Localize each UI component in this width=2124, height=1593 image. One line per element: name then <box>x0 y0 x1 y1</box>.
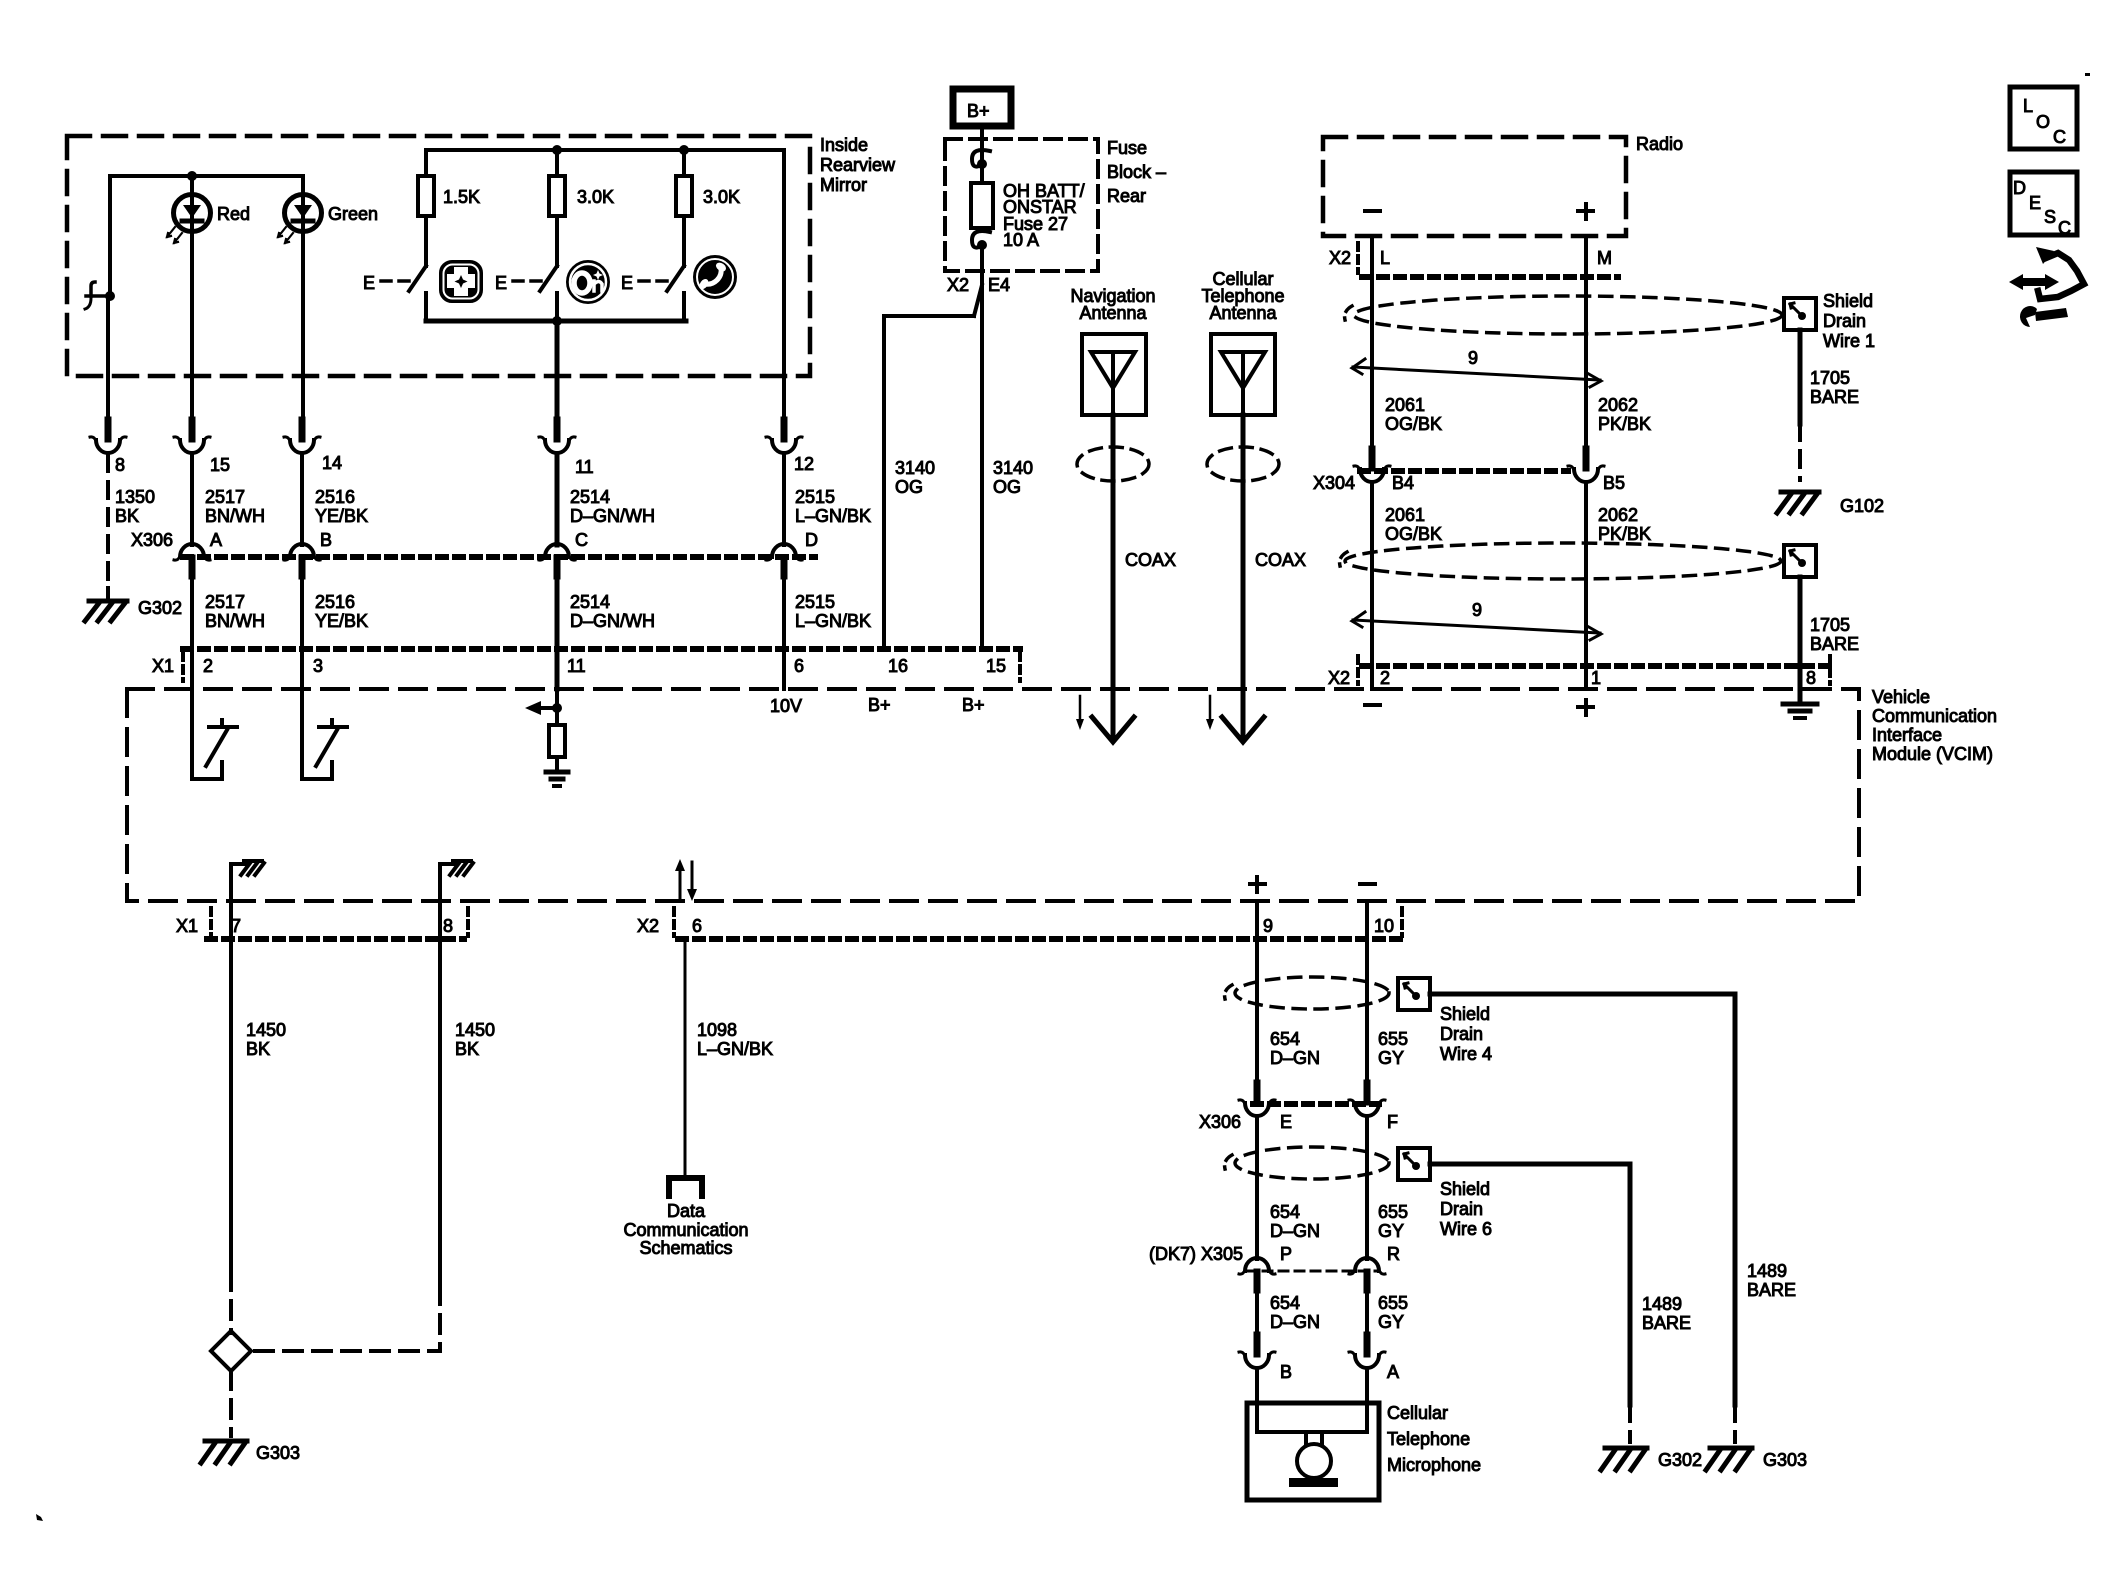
svg-text:3140: 3140 <box>993 458 1033 478</box>
shield curl mic 2 <box>1225 1155 1232 1169</box>
connector row X2 bottom (pins 6,9,10) <box>678 936 1402 942</box>
fuse clip bottom <box>972 231 990 250</box>
small arrow cell <box>1206 696 1214 730</box>
svg-text:X2: X2 <box>637 916 659 936</box>
connector row X305 (P,R) <box>1247 1270 1379 1273</box>
wire 2061 (radio L) <box>1370 236 1374 449</box>
wire pin3 into VCIM <box>300 649 304 689</box>
small arrow nav <box>1076 696 1084 730</box>
svg-text:Rearview: Rearview <box>820 155 896 175</box>
svg-text:B+: B+ <box>962 695 985 715</box>
svg-text:654: 654 <box>1270 1029 1300 1049</box>
junction dot LED rail <box>187 171 197 181</box>
svg-text:2062: 2062 <box>1598 505 1638 525</box>
svg-text:1450: 1450 <box>246 1020 286 1040</box>
svg-text:G302: G302 <box>1658 1450 1702 1470</box>
svg-text:L–GN/BK: L–GN/BK <box>795 506 871 526</box>
ground (VCIM internal) <box>546 772 568 786</box>
wire jog at X2/E4 <box>974 285 982 316</box>
wire resistor to ground <box>555 757 559 770</box>
switch blade at x=684 <box>667 266 684 291</box>
svg-text:G302: G302 <box>138 598 182 618</box>
svg-text:X306: X306 <box>1199 1112 1241 1132</box>
wire fuse out <box>980 245 984 649</box>
svg-text:D–GN/WH: D–GN/WH <box>570 506 655 526</box>
connector X306 pin F <box>1349 1083 1385 1116</box>
icon LOC box <box>2010 87 2077 149</box>
bracket X2 VCIM left <box>1356 656 1360 684</box>
bracket X2 VCIM right <box>1828 656 1832 684</box>
wire 2514 lower <box>555 576 560 649</box>
svg-text:COAX: COAX <box>1125 550 1176 570</box>
svg-text:10V: 10V <box>770 696 802 716</box>
svg-text:P: P <box>1280 1244 1292 1264</box>
stray mark top right <box>2085 73 2090 76</box>
icon emergency cross button <box>440 261 482 302</box>
shield drain terminal 1 <box>1784 298 1816 330</box>
svg-text:BK: BK <box>115 506 139 526</box>
wire shield drain 6 dashed <box>1628 1405 1632 1442</box>
splice diamond <box>211 1331 251 1371</box>
wire diamond to G303 <box>229 1371 233 1436</box>
svg-text:2514: 2514 <box>570 487 610 507</box>
icon DESC box <box>2010 172 2077 238</box>
svg-text:BN/WH: BN/WH <box>205 506 265 526</box>
svg-text:E: E <box>1280 1112 1292 1132</box>
svg-text:BARE: BARE <box>1747 1280 1796 1300</box>
svg-text:8: 8 <box>1806 668 1816 688</box>
connector pin 8 (mirror) <box>90 420 126 453</box>
svg-text:(DK7) X305: (DK7) X305 <box>1149 1244 1243 1264</box>
svg-text:2515: 2515 <box>795 592 835 612</box>
switch contact at x=684 <box>682 293 686 321</box>
svg-text:Shield: Shield <box>1440 1004 1490 1024</box>
wire pin11 drop <box>555 321 560 420</box>
resistor 3.0K (onstar) <box>549 176 565 216</box>
connector mic pin A <box>1349 1335 1385 1368</box>
svg-text:F: F <box>1387 1112 1398 1132</box>
antenna symbol cell <box>1221 352 1265 415</box>
svg-text:Antenna: Antenna <box>1209 303 1277 323</box>
bracket X2 bottom left <box>672 908 676 936</box>
svg-text:Antenna: Antenna <box>1079 303 1147 323</box>
ground (shield to VCIM pin 8) <box>1783 704 1817 718</box>
shield drain terminal 2 <box>1784 545 1816 577</box>
twisted shield ellipse 2 <box>1345 543 1781 579</box>
svg-text:6: 6 <box>692 916 702 936</box>
switch contact at x=557 <box>555 293 559 321</box>
antenna symbol nav <box>1091 352 1135 415</box>
svg-text:9: 9 <box>1263 916 1273 936</box>
svg-text:E: E <box>495 273 507 293</box>
svg-text:1489: 1489 <box>1747 1261 1787 1281</box>
icon phone button <box>694 256 736 298</box>
svg-text:L: L <box>2023 96 2033 116</box>
svg-text:Communication: Communication <box>623 1220 748 1240</box>
svg-text:B: B <box>320 530 332 550</box>
svg-text:X1: X1 <box>176 916 198 936</box>
wire 2516 upper <box>300 455 304 545</box>
svg-text:1489: 1489 <box>1642 1294 1682 1314</box>
svg-text:Fuse: Fuse <box>1107 138 1147 158</box>
svg-text:8: 8 <box>443 916 453 936</box>
svg-text:654: 654 <box>1270 1293 1300 1313</box>
svg-text:BARE: BARE <box>1642 1313 1691 1333</box>
coax arrowhead cell <box>1222 717 1264 742</box>
svg-text:Cellular: Cellular <box>1387 1403 1448 1423</box>
coax shield ellipse cell <box>1207 447 1279 481</box>
svg-text:Shield: Shield <box>1823 291 1873 311</box>
svg-text:Vehicle: Vehicle <box>1872 687 1930 707</box>
coax wire cell <box>1241 415 1246 740</box>
wire 654 D-GN (pin 9) <box>1255 901 1259 1083</box>
svg-text:Red: Red <box>217 204 250 224</box>
svg-text:Shield: Shield <box>1440 1179 1490 1199</box>
svg-text:X306: X306 <box>131 530 173 550</box>
battery feed B+ box <box>953 89 1011 126</box>
wire 2062 lower <box>1584 484 1588 689</box>
svg-text:1: 1 <box>1591 668 1601 688</box>
svg-text:D–GN: D–GN <box>1270 1048 1320 1068</box>
connector X304 pin B5 <box>1568 449 1604 482</box>
VCIM internal switch (pin at x=192) <box>192 689 237 779</box>
svg-text:O: O <box>2036 112 2050 132</box>
svg-text:X2: X2 <box>947 275 969 295</box>
wire 2516 lower <box>300 576 304 649</box>
svg-text:BARE: BARE <box>1810 634 1859 654</box>
svg-text:L–GN/BK: L–GN/BK <box>697 1039 773 1059</box>
connector X306 pin D <box>766 544 802 576</box>
label minus (radio) <box>1365 209 1380 213</box>
svg-text:2514: 2514 <box>570 592 610 612</box>
svg-text:D: D <box>2013 178 2026 198</box>
wire 655 low <box>1365 1290 1369 1335</box>
svg-text:655: 655 <box>1378 1202 1408 1222</box>
svg-text:Microphone: Microphone <box>1387 1455 1481 1475</box>
connector X306 pin B <box>284 544 320 576</box>
icon OnStar button <box>567 261 609 303</box>
connector pin 15 (mirror) <box>174 420 210 453</box>
connector X304 pin B4 <box>1354 449 1390 482</box>
wire 2517 upper <box>190 455 194 545</box>
bracket X1 right <box>1018 653 1022 681</box>
label minus (pin 10) <box>1360 882 1375 886</box>
svg-text:Drain: Drain <box>1823 311 1866 331</box>
svg-text:B: B <box>1280 1362 1292 1382</box>
svg-text:G303: G303 <box>256 1443 300 1463</box>
connector mic pin B <box>1239 1335 1275 1368</box>
twisted pair marker 9 (lower) <box>1352 612 1601 640</box>
svg-text:2061: 2061 <box>1385 395 1425 415</box>
svg-text:BK: BK <box>455 1039 479 1059</box>
svg-text:2062: 2062 <box>1598 395 1638 415</box>
svg-text:B+: B+ <box>868 695 891 715</box>
svg-text:M: M <box>1597 248 1612 268</box>
svg-text:3.0K: 3.0K <box>703 187 740 207</box>
coax shield ellipse nav <box>1077 447 1149 481</box>
label plus (pin 9) <box>1250 877 1265 892</box>
wire R3 to switch <box>682 216 686 266</box>
svg-text:Radio: Radio <box>1636 134 1683 154</box>
wire pin6(10V) into VCIM <box>782 649 786 689</box>
bracket X1 bottom right <box>466 908 470 936</box>
svg-text:A: A <box>210 530 222 550</box>
svg-text:C: C <box>575 530 588 550</box>
wire 654 low <box>1255 1290 1259 1335</box>
bracket X1 left <box>181 653 185 681</box>
svg-text:BK: BK <box>246 1039 270 1059</box>
wire branch to pin16 <box>884 316 974 649</box>
svg-text:YE/BK: YE/BK <box>315 506 368 526</box>
svg-text:D–GN: D–GN <box>1270 1312 1320 1332</box>
svg-text:B5: B5 <box>1603 473 1625 493</box>
Inside Rearview Mirror module box <box>67 136 810 376</box>
wire stub above G302 <box>106 588 110 599</box>
junction dot clip <box>105 291 115 301</box>
svg-text:9: 9 <box>1468 348 1478 368</box>
wire pin2 into VCIM <box>190 649 194 689</box>
svg-text:Data: Data <box>667 1201 706 1221</box>
svg-text:654: 654 <box>1270 1202 1300 1222</box>
svg-text:2516: 2516 <box>315 487 355 507</box>
label plus (VCIM pin1) <box>1578 700 1593 715</box>
svg-text:Wire 1: Wire 1 <box>1823 331 1875 351</box>
svg-text:D–GN/WH: D–GN/WH <box>570 611 655 631</box>
junction dot rail R3 <box>679 145 689 155</box>
svg-text:2061: 2061 <box>1385 505 1425 525</box>
connector row X1 (VCIM top) <box>183 646 1020 652</box>
wire shield drain 2 <box>1798 577 1803 700</box>
junction dot bottom rail <box>552 316 562 326</box>
ground G303 (right) <box>1706 1448 1752 1470</box>
connector X306 pin C <box>539 544 575 576</box>
svg-text:3140: 3140 <box>895 458 935 478</box>
svg-text:2516: 2516 <box>315 592 355 612</box>
svg-text:D: D <box>805 530 818 550</box>
svg-text:B4: B4 <box>1392 473 1414 493</box>
svg-text:E4: E4 <box>988 275 1010 295</box>
svg-text:14: 14 <box>322 453 342 473</box>
microphone symbol <box>1257 1432 1367 1487</box>
wire mirror pin8 drop <box>106 296 110 420</box>
wire 2062 (radio M) <box>1584 236 1588 449</box>
svg-text:1098: 1098 <box>697 1020 737 1040</box>
wire 2515 upper <box>782 455 786 545</box>
svg-text:PK/BK: PK/BK <box>1598 414 1651 434</box>
svg-text:15: 15 <box>210 455 230 475</box>
svg-text:G102: G102 <box>1840 496 1884 516</box>
svg-text:Inside: Inside <box>820 135 868 155</box>
wire shield drain 4 to G303 <box>1430 994 1735 1405</box>
svg-text:2515: 2515 <box>795 487 835 507</box>
wire 1450 BK (pin 7) <box>229 901 233 1272</box>
ground G303 (left) <box>201 1441 247 1463</box>
svg-text:C: C <box>2053 127 2066 147</box>
svg-text:2517: 2517 <box>205 487 245 507</box>
svg-text:3.0K: 3.0K <box>577 187 614 207</box>
shield drain terminal 6 <box>1398 1148 1430 1180</box>
wire 2061 lower <box>1370 484 1374 689</box>
svg-text:OG: OG <box>993 477 1021 497</box>
coax wire nav <box>1111 415 1116 740</box>
fuse OH BATT/ONSTAR Fuse 27 10A <box>971 183 993 228</box>
svg-text:X304: X304 <box>1313 473 1355 493</box>
wire 655 mid <box>1365 1118 1369 1259</box>
svg-text:E: E <box>621 273 633 293</box>
svg-text:L–GN/BK: L–GN/BK <box>795 611 871 631</box>
connector row X306 (A-D) <box>183 554 815 560</box>
svg-text:S: S <box>2044 207 2056 227</box>
wire LED green drop <box>301 176 305 420</box>
resistor 3.0K (phone) <box>676 176 692 216</box>
svg-text:GY: GY <box>1378 1048 1404 1068</box>
svg-text:1.5K: 1.5K <box>443 187 480 207</box>
svg-text:6: 6 <box>794 656 804 676</box>
svg-text:Drain: Drain <box>1440 1024 1483 1044</box>
svg-text:COAX: COAX <box>1255 550 1306 570</box>
svg-text:X1: X1 <box>152 656 174 676</box>
svg-text:GY: GY <box>1378 1312 1404 1332</box>
svg-text:Telephone: Telephone <box>1387 1429 1470 1449</box>
svg-text:E: E <box>2029 193 2041 213</box>
wire 2517 lower <box>190 576 194 649</box>
wire LED red drop <box>190 176 194 420</box>
svg-text:A: A <box>1387 1362 1399 1382</box>
svg-text:B+: B+ <box>967 101 990 121</box>
svg-text:L: L <box>1380 248 1390 268</box>
wire 2514 upper <box>555 455 560 545</box>
svg-text:G303: G303 <box>1763 1450 1807 1470</box>
junction dot rail R2 <box>552 145 562 155</box>
wire 654 mid <box>1255 1118 1259 1259</box>
wire B+ to fuse <box>980 130 984 163</box>
shield drain terminal 4 <box>1398 978 1430 1010</box>
svg-text:YE/BK: YE/BK <box>315 611 368 631</box>
icon diagnostic arrows + wrench <box>2009 247 2084 327</box>
svg-text:X2: X2 <box>1329 248 1351 268</box>
VCIM internal ground (pin at x=440) <box>440 861 473 901</box>
bracket X1 bottom left <box>209 908 213 936</box>
svg-text:2517: 2517 <box>205 592 245 612</box>
wire 1450 BK pin8 dashed <box>253 1286 440 1351</box>
svg-text:E: E <box>363 273 375 293</box>
wire mic B <box>1255 1370 1259 1432</box>
wire shield drain 1 <box>1798 330 1803 424</box>
svg-text:BN/WH: BN/WH <box>205 611 265 631</box>
svg-text:1350: 1350 <box>115 487 155 507</box>
wire R2 top <box>555 150 559 176</box>
shield curl mic 1 <box>1225 985 1232 999</box>
svg-text:Module (VCIM): Module (VCIM) <box>1872 744 1993 764</box>
svg-text:Communication: Communication <box>1872 706 1997 726</box>
wire switch top rail <box>426 150 784 176</box>
connector X306 pin A <box>174 544 210 576</box>
label minus (VCIM pin2) <box>1365 703 1380 707</box>
svg-text:16: 16 <box>888 656 908 676</box>
LED indicator Red <box>167 195 211 244</box>
svg-text:C: C <box>2058 218 2071 238</box>
svg-text:3: 3 <box>313 656 323 676</box>
wire shield drain 6 to G302 <box>1430 1164 1630 1405</box>
antenna box nav <box>1082 334 1146 415</box>
wire 655 GY (pin 10) <box>1365 901 1369 1083</box>
wire switch bottom rail <box>426 319 686 324</box>
connector pin 11 (mirror) <box>539 420 575 453</box>
VCIM internal switch (pin at x=302) <box>302 689 347 779</box>
svg-text:OG: OG <box>895 477 923 497</box>
svg-text:655: 655 <box>1378 1029 1408 1049</box>
svg-text:Schematics: Schematics <box>639 1238 732 1258</box>
connector row X1 bottom (pins 7,8) <box>207 936 464 942</box>
connector X305 pin P <box>1239 1258 1275 1290</box>
connector pin 12 (mirror) <box>766 420 802 453</box>
svg-text:655: 655 <box>1378 1293 1408 1313</box>
twisted shield ellipse mic 1 <box>1235 977 1389 1009</box>
svg-text:X2: X2 <box>1328 668 1350 688</box>
module box Radio <box>1323 137 1626 236</box>
svg-text:9: 9 <box>1472 600 1482 620</box>
VCIM internal resistor <box>549 725 565 757</box>
wire shield drain 1 dashed <box>1798 424 1802 480</box>
connector X306 pin E <box>1239 1083 1275 1116</box>
wire 1450 BK pin7 dashed <box>229 1272 233 1333</box>
connector row X306 (E,F) <box>1253 1101 1379 1107</box>
svg-text:Mirror: Mirror <box>820 175 867 195</box>
connector pin 14 (mirror) <box>284 420 320 453</box>
switch blade at x=557 <box>540 266 557 291</box>
svg-text:2: 2 <box>203 656 213 676</box>
svg-text:1705: 1705 <box>1810 368 1850 388</box>
svg-text:1705: 1705 <box>1810 615 1850 635</box>
connector X305 pin R <box>1349 1258 1385 1290</box>
svg-text:2: 2 <box>1380 668 1390 688</box>
VCIM internal ground (pin at x=231) <box>231 861 264 901</box>
svg-text:PK/BK: PK/BK <box>1598 524 1651 544</box>
svg-text:OG/BK: OG/BK <box>1385 524 1442 544</box>
svg-text:10: 10 <box>1374 916 1394 936</box>
svg-text:Interface: Interface <box>1872 725 1942 745</box>
wire pin12 drop <box>782 150 786 420</box>
svg-text:Block –: Block – <box>1107 162 1166 182</box>
ground G302 (left) <box>85 601 127 621</box>
wire shield drain 4 dashed <box>1733 1405 1737 1442</box>
svg-text:11: 11 <box>575 457 594 477</box>
bracket X2 bottom right <box>1400 908 1404 936</box>
svg-text:15: 15 <box>986 656 1006 676</box>
connector row X2 (radio) <box>1362 274 1618 280</box>
wire R3 top <box>682 150 686 176</box>
twisted shield ellipse 1 <box>1354 296 1782 334</box>
wire 1450 BK (pin 8) <box>438 901 442 1286</box>
coax arrowhead nav <box>1092 717 1134 742</box>
off-page connector (data link) <box>669 1178 702 1196</box>
wire pin11 into VCIM <box>555 649 560 689</box>
clip terminal inside mirror <box>85 282 110 309</box>
serial data arrows (pin 6) <box>675 859 697 901</box>
antenna box cell <box>1211 334 1275 415</box>
wire 1098 L-GN/BK <box>684 939 687 1177</box>
svg-text:1450: 1450 <box>455 1020 495 1040</box>
module box Vehicle Communication Interface Module (VCIM) <box>127 689 1859 901</box>
fuse clip top <box>972 150 990 169</box>
wire 2515 lower <box>782 576 786 649</box>
ground G302 (right) <box>1601 1448 1647 1470</box>
twisted pair marker 9 (upper) <box>1352 359 1601 387</box>
shield curl left 1 <box>1345 306 1352 320</box>
svg-text:Green: Green <box>328 204 378 224</box>
switch contact at x=426 <box>424 293 428 321</box>
svg-text:Rear: Rear <box>1107 186 1146 206</box>
